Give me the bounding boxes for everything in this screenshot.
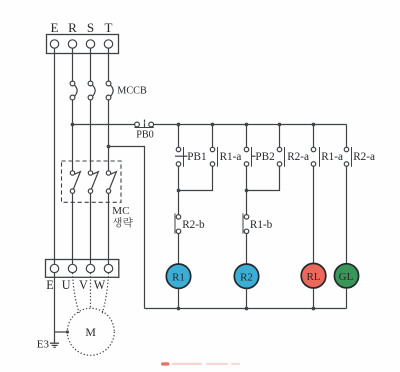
svg-text:R2-a: R2-a bbox=[287, 151, 309, 163]
svg-text:RL: RL bbox=[306, 271, 320, 283]
MCCB pole S bbox=[88, 81, 93, 86]
terminal E2 bbox=[50, 264, 58, 272]
branch R1-a(2) drop bbox=[313, 125, 315, 148]
motor M body bbox=[67, 308, 114, 355]
junction bus x PB1 bbox=[177, 123, 181, 127]
lamp GL bbox=[334, 264, 358, 288]
wire R top bbox=[72, 48, 74, 81]
junction bus x PB2 bbox=[245, 123, 249, 127]
junction R x control bus bbox=[71, 123, 75, 127]
svg-text:MCCB: MCCB bbox=[117, 85, 147, 96]
svg-text:R2-b: R2-b bbox=[182, 219, 205, 231]
wire RL to bottom bus bbox=[313, 288, 315, 309]
wire control tap from R to PB0 bbox=[73, 124, 135, 126]
pushbutton PB0 (NC) bbox=[135, 122, 140, 127]
svg-text:W: W bbox=[94, 278, 106, 292]
wire R1-a(1) to join bbox=[179, 166, 213, 190]
junction bus x R2-a1 bbox=[278, 123, 282, 127]
MCCB pole R bbox=[70, 81, 75, 86]
wire R1 to bottom bus bbox=[178, 288, 180, 308]
svg-text:R1-a: R1-a bbox=[220, 151, 242, 163]
pushbutton PB1 (NO) bbox=[176, 147, 181, 152]
terminal V bbox=[86, 264, 94, 272]
junction join1 bbox=[177, 189, 181, 193]
svg-text:R1-a: R1-a bbox=[321, 151, 343, 163]
wire S bottom bbox=[90, 193, 92, 264]
terminal block TB2 (E U V W) bbox=[46, 260, 119, 278]
junction bottom x RL bbox=[312, 307, 316, 311]
wire tap from T to control return bbox=[109, 147, 145, 309]
MC contact R bbox=[70, 171, 74, 175]
MC dashed enclosure bbox=[62, 161, 122, 202]
terminal U bbox=[68, 264, 76, 272]
junction bottom x R1 bbox=[177, 307, 181, 311]
wire T middle bbox=[108, 100, 110, 171]
wire control bus top bbox=[154, 124, 347, 126]
branch R1-a(1) drop bbox=[212, 125, 214, 148]
terminal S bbox=[86, 40, 94, 48]
contact R1-b (NC) bbox=[244, 215, 249, 220]
junction join2 bbox=[245, 189, 249, 193]
pushbutton PB2 (NO) bbox=[244, 147, 249, 152]
junction E x motor bbox=[66, 330, 69, 333]
wire E to motor frame bbox=[55, 331, 68, 333]
ground E3 bbox=[50, 342, 59, 344]
svg-text:E3: E3 bbox=[37, 338, 50, 350]
branch R2-a(2) corner drop bbox=[346, 125, 348, 148]
wire T top bbox=[108, 48, 110, 81]
svg-text:R: R bbox=[68, 20, 77, 35]
junction bus x R1-a2 bbox=[312, 123, 316, 127]
wire R2-b to coil R1 bbox=[178, 233, 180, 264]
terminal W bbox=[104, 264, 112, 272]
contact R2-a (2) bbox=[344, 147, 349, 152]
wire E vertical bbox=[54, 48, 56, 264]
svg-text:T: T bbox=[105, 20, 113, 35]
wire S middle bbox=[90, 100, 92, 171]
wire T bottom bbox=[108, 193, 110, 264]
motor lead W dotted bbox=[102, 273, 108, 313]
wire PB2 to join bbox=[246, 166, 248, 190]
wire R1-a(2) to lamp RL bbox=[313, 166, 315, 263]
wire R bottom bbox=[72, 193, 74, 264]
svg-text:GL: GL bbox=[339, 271, 354, 283]
branch R2-a(1) drop bbox=[279, 125, 281, 148]
coil R2 bbox=[234, 264, 258, 288]
wire PB1 to join bbox=[178, 166, 180, 190]
MC contact S bbox=[88, 171, 92, 175]
contact R2-a (1) bbox=[277, 147, 282, 152]
MCCB pole T bbox=[106, 81, 111, 86]
terminal R bbox=[68, 40, 76, 48]
wire R2 to bottom bus bbox=[246, 288, 248, 308]
scan artifact pink smudge bbox=[161, 362, 240, 365]
svg-text:M: M bbox=[85, 325, 96, 339]
svg-text:R1-b: R1-b bbox=[250, 219, 273, 231]
svg-text:PB2: PB2 bbox=[255, 151, 274, 163]
lamp RL bbox=[301, 263, 326, 288]
wire R middle bbox=[72, 100, 74, 171]
contact R1-a (2) bbox=[311, 147, 316, 152]
svg-text:E: E bbox=[46, 278, 53, 292]
MC contact T bbox=[106, 171, 110, 175]
svg-text:R2-a: R2-a bbox=[353, 151, 375, 163]
coil R1 bbox=[166, 264, 190, 288]
terminal E bbox=[50, 40, 58, 48]
svg-text:U: U bbox=[62, 278, 71, 292]
terminal block TB1 (E R S T) bbox=[47, 35, 119, 54]
wire R1-b to coil R2 bbox=[246, 233, 248, 264]
wire R2-a(2) to lamp GL bbox=[346, 166, 348, 263]
motor lead V dotted bbox=[90, 273, 92, 309]
contact R2-b (NC) bbox=[176, 215, 181, 220]
wire S top bbox=[90, 48, 92, 81]
svg-text:PB1: PB1 bbox=[187, 151, 206, 163]
motor lead U dotted bbox=[73, 273, 80, 313]
svg-text:V: V bbox=[79, 278, 88, 292]
label 생략 bbox=[113, 217, 133, 227]
svg-text:PB0: PB0 bbox=[136, 130, 154, 141]
wire control bus bottom bbox=[145, 308, 347, 310]
branch PB2 drop bbox=[246, 125, 248, 148]
junction T x return bbox=[107, 145, 111, 149]
svg-text:R1: R1 bbox=[172, 272, 185, 284]
wire GL to bottom bus bbox=[346, 288, 348, 309]
contact R1-a (1) bbox=[210, 147, 215, 152]
junction bottom x R2 bbox=[245, 307, 249, 311]
svg-text:E: E bbox=[51, 20, 59, 35]
svg-text:S: S bbox=[87, 20, 94, 35]
junction bus x R1-a1 bbox=[211, 123, 215, 127]
wire join1 to R2-b bbox=[178, 191, 180, 215]
terminal T bbox=[104, 40, 112, 48]
svg-text:MC: MC bbox=[112, 205, 129, 217]
branch PB1 drop bbox=[178, 125, 180, 148]
svg-text:R2: R2 bbox=[240, 272, 253, 284]
wire R2-a(1) to join bbox=[247, 166, 280, 190]
wire E to ground bbox=[54, 273, 56, 344]
wire join2 to R1-b bbox=[246, 191, 248, 215]
